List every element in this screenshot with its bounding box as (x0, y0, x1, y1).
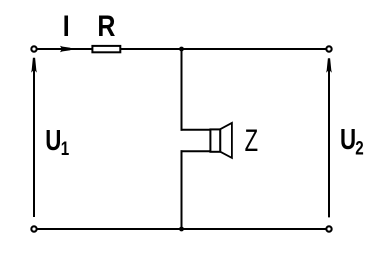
current arrow I head (on top wire, points right) (60, 46, 70, 52)
svg-text:I: I (63, 9, 70, 42)
voltage arrow U1 shaft (33, 63, 35, 217)
speaker Z cone (220, 123, 232, 158)
terminal top-right (326, 46, 331, 51)
voltage arrow U1 head (points up) (31, 58, 37, 73)
wire bottom (37, 228, 326, 230)
svg-text:Z: Z (245, 122, 258, 158)
terminal bottom-left (31, 226, 36, 231)
label U1 (45, 125, 69, 159)
svg-text:U: U (45, 125, 61, 156)
junction dot top (179, 47, 184, 52)
wire top (37, 48, 326, 50)
svg-text:U: U (340, 124, 356, 155)
voltage arrow U2 shaft (328, 64, 330, 218)
voltage arrow U2 head (points up) (326, 58, 332, 73)
speaker Z body (210, 129, 220, 151)
terminal bottom-right (326, 226, 331, 231)
label R (97, 9, 115, 42)
resistor R (92, 46, 120, 52)
wire middle upper (181, 49, 183, 131)
terminal top-left (31, 46, 36, 51)
wire speaker stub top (181, 129, 212, 131)
junction dot bottom (179, 227, 184, 232)
wire speaker stub bottom (181, 150, 212, 152)
svg-text:1: 1 (61, 137, 70, 159)
label U2 (340, 124, 364, 158)
label Z (245, 122, 258, 158)
wire middle lower (181, 150, 183, 229)
svg-text:R: R (97, 9, 115, 42)
label I (63, 9, 70, 42)
svg-text:2: 2 (355, 136, 364, 158)
